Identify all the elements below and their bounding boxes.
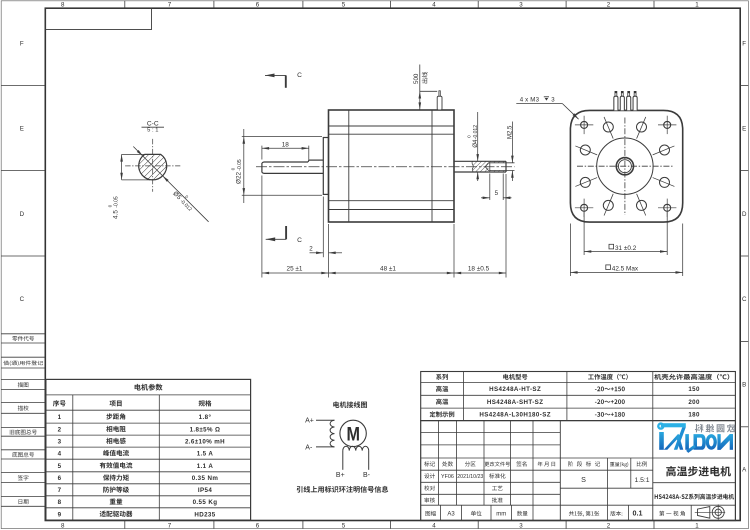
- svg-text:4: 4: [432, 2, 436, 9]
- svg-text:B-: B-: [363, 472, 371, 479]
- svg-text:B+: B+: [336, 472, 345, 479]
- svg-text:6: 6: [256, 522, 260, 529]
- svg-text:A3: A3: [447, 512, 455, 518]
- svg-text:7: 7: [168, 2, 172, 9]
- svg-text:4 x M3: 4 x M3: [520, 97, 540, 104]
- svg-text:Ø22: Ø22: [236, 171, 243, 184]
- svg-text:180: 180: [688, 412, 700, 419]
- svg-text:0.1: 0.1: [633, 509, 643, 518]
- svg-text:6: 6: [256, 2, 260, 9]
- svg-text:7: 7: [168, 522, 172, 529]
- svg-text:6: 6: [58, 475, 62, 482]
- svg-text:500: 500: [413, 73, 420, 84]
- svg-text:C: C: [20, 296, 25, 303]
- svg-text:E: E: [742, 126, 746, 133]
- svg-text:5: 5: [342, 2, 346, 9]
- svg-text:1: 1: [695, 522, 699, 529]
- svg-text:25 ±1: 25 ±1: [287, 265, 303, 272]
- svg-text:150: 150: [688, 386, 700, 393]
- svg-text:9: 9: [58, 511, 62, 518]
- svg-text:0.55 Kg: 0.55 Kg: [193, 499, 218, 506]
- svg-text:A+: A+: [305, 417, 314, 424]
- svg-text:3: 3: [551, 97, 555, 104]
- svg-text:E: E: [20, 126, 24, 133]
- svg-text:S: S: [581, 475, 586, 484]
- svg-text:18: 18: [282, 141, 290, 148]
- svg-text:5: 5: [342, 522, 346, 529]
- svg-text:C: C: [297, 237, 302, 244]
- svg-text:4: 4: [58, 450, 62, 457]
- svg-text:2: 2: [607, 522, 611, 529]
- svg-text:1.8±5% Ω: 1.8±5% Ω: [190, 426, 221, 433]
- svg-text:HS4248A-L30H180-SZ: HS4248A-L30H180-SZ: [479, 412, 551, 419]
- svg-text:42.5 Max: 42.5 Max: [612, 266, 639, 273]
- svg-text:2: 2: [607, 2, 611, 9]
- svg-text:B: B: [742, 382, 746, 389]
- svg-text:2: 2: [309, 245, 313, 252]
- svg-text:5 : 1: 5 : 1: [147, 128, 158, 134]
- svg-text:YF06: YF06: [441, 474, 454, 480]
- svg-text:HS4248A-HT-SZ: HS4248A-HT-SZ: [489, 386, 541, 393]
- svg-text:0.35 Nm: 0.35 Nm: [192, 475, 219, 482]
- svg-text:1: 1: [695, 2, 699, 9]
- svg-text:-0.05: -0.05: [114, 196, 120, 208]
- svg-text:1.8°: 1.8°: [199, 414, 212, 421]
- svg-text:200: 200: [688, 399, 700, 406]
- svg-text:F: F: [20, 40, 24, 47]
- svg-text:C: C: [297, 72, 302, 79]
- svg-text:4: 4: [432, 522, 436, 529]
- svg-text:D: D: [20, 211, 25, 218]
- svg-text:1.1 A: 1.1 A: [197, 463, 214, 470]
- svg-text:31 ±0.2: 31 ±0.2: [615, 245, 637, 252]
- svg-text:1.5 A: 1.5 A: [197, 450, 214, 457]
- svg-text:3: 3: [519, 2, 523, 9]
- svg-text:IP54: IP54: [198, 487, 212, 494]
- svg-text:8: 8: [61, 2, 65, 9]
- svg-text:-0.05: -0.05: [237, 159, 243, 171]
- svg-text:3: 3: [58, 438, 62, 445]
- svg-text:M: M: [347, 423, 361, 445]
- svg-text:2: 2: [58, 426, 62, 433]
- svg-text:5: 5: [58, 463, 62, 470]
- svg-text:3: 3: [519, 522, 523, 529]
- svg-text:1: 1: [58, 414, 62, 421]
- svg-text:HD235: HD235: [194, 511, 215, 518]
- svg-text:48 ±1: 48 ±1: [380, 265, 396, 272]
- svg-text:C: C: [742, 296, 747, 303]
- svg-text:1.5:1: 1.5:1: [634, 477, 649, 484]
- svg-text:2.6±10% mH: 2.6±10% mH: [185, 438, 225, 445]
- svg-text:8: 8: [58, 499, 62, 506]
- svg-text:F: F: [742, 40, 746, 47]
- svg-text:mm: mm: [496, 512, 506, 518]
- svg-text:5: 5: [495, 190, 499, 197]
- svg-text:C-C: C-C: [147, 120, 159, 127]
- svg-text:8: 8: [61, 522, 65, 529]
- svg-text:2021/10/23: 2021/10/23: [457, 474, 483, 480]
- svg-text:D: D: [742, 211, 747, 218]
- svg-text:7: 7: [58, 487, 62, 494]
- svg-text:4.5: 4.5: [113, 210, 120, 219]
- svg-text:A-: A-: [305, 444, 313, 451]
- svg-text:18 ±0.5: 18 ±0.5: [468, 265, 490, 272]
- svg-text:HS4248A-SHT-SZ: HS4248A-SHT-SZ: [487, 399, 544, 406]
